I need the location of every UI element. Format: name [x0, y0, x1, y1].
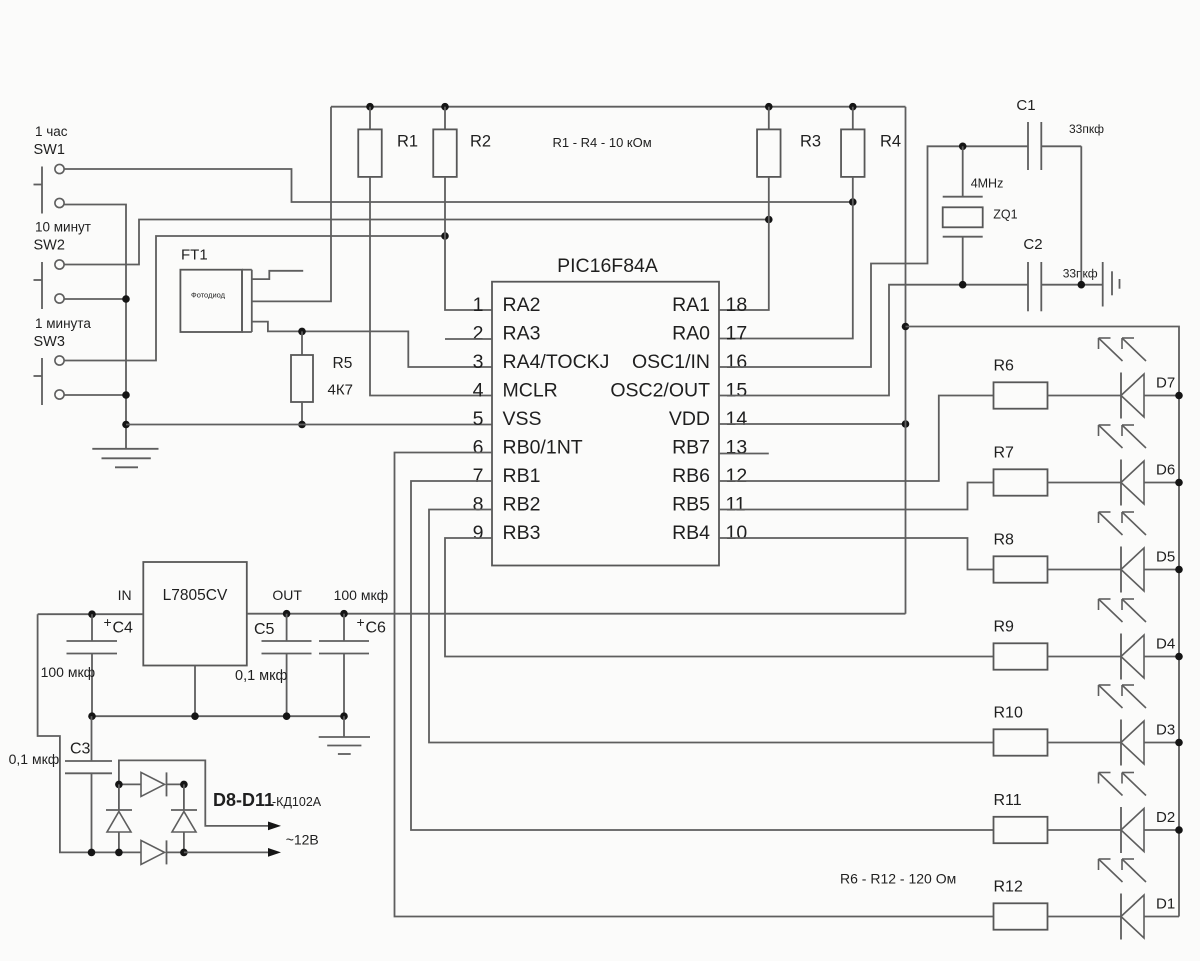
svg-text:SW1: SW1	[34, 142, 65, 158]
svg-text:RB2: RB2	[503, 494, 541, 516]
wire SW3 bottom to bus	[64, 394, 126, 396]
capacitor C1	[1028, 122, 1081, 170]
U1 title label	[557, 255, 658, 277]
svg-text:18: 18	[726, 294, 748, 316]
svg-text:4К7: 4К7	[328, 382, 353, 399]
D5 light arrows	[1099, 512, 1147, 535]
wire SW1 bottom to ground bus	[64, 205, 126, 449]
junction D3 - bus	[1175, 739, 1183, 747]
svg-text:33пкф: 33пкф	[1069, 122, 1104, 136]
label R1 - R4 value	[553, 135, 652, 150]
svg-text:R10: R10	[994, 705, 1023, 722]
junction VDD-+5V	[902, 420, 910, 428]
R7 label	[994, 445, 1015, 462]
svg-text:RB0/1NT: RB0/1NT	[503, 437, 583, 459]
svg-text:RB6: RB6	[672, 465, 710, 487]
svg-text:RA2: RA2	[503, 294, 541, 316]
junction SW3-bus	[122, 391, 130, 399]
D3 label	[1156, 722, 1175, 739]
svg-text:R9: R9	[994, 619, 1015, 636]
op-amp U1 PIC16F84A body	[492, 282, 719, 566]
svg-text:0,1 мкф: 0,1 мкф	[9, 751, 60, 767]
junctions ground rail	[88, 712, 348, 720]
svg-text:+: +	[104, 614, 112, 630]
svg-text:SW2: SW2	[34, 238, 65, 254]
svg-text:C5: C5	[254, 621, 275, 638]
resistor R4	[719, 107, 865, 339]
svg-text:+: +	[357, 614, 365, 630]
R5 label	[328, 355, 353, 399]
svg-text:MCLR: MCLR	[503, 380, 558, 402]
photodiode FT1	[180, 270, 251, 332]
D5 label	[1156, 549, 1175, 566]
svg-text:R11: R11	[994, 792, 1022, 809]
R2 label	[470, 133, 491, 151]
diode D11 (bottom)	[119, 840, 184, 864]
svg-text:33пкф: 33пкф	[1063, 267, 1098, 281]
pin 15 label	[610, 380, 747, 402]
svg-text:5: 5	[473, 408, 484, 430]
pin 14 label	[669, 408, 748, 430]
diode D10 (right)	[171, 784, 197, 852]
D4 label	[1156, 636, 1175, 653]
svg-text:RA1: RA1	[672, 294, 710, 316]
R1 label	[397, 133, 418, 151]
junction D2 - bus	[1175, 826, 1183, 834]
resistor R10	[994, 729, 1122, 755]
junction D7 - bus	[1175, 392, 1183, 400]
pin 11 label	[672, 494, 746, 516]
pin 10 label	[672, 522, 747, 544]
wire pin13 RB7 stub	[719, 453, 769, 455]
switch SW1	[34, 164, 65, 213]
wire SW1 top to R4 bottom / pin17 net	[64, 169, 853, 202]
wire IN rail	[38, 613, 144, 615]
svg-text:SW3: SW3	[34, 334, 65, 350]
wire SW3 top to R2 bottom / pin1 net	[64, 236, 445, 361]
resistor R12	[994, 903, 1122, 929]
junction C1-ZQ1 top	[959, 143, 967, 151]
junction SW2-bus	[122, 295, 130, 303]
switch SW3	[34, 356, 65, 405]
wire OUT +5V rail	[247, 613, 906, 615]
svg-text:15: 15	[726, 380, 748, 402]
junction SW2 wire - R3 lead	[765, 216, 773, 224]
svg-text:2: 2	[473, 323, 484, 345]
svg-text:1: 1	[473, 294, 484, 316]
R3 label	[800, 133, 821, 151]
wire pin10 RB4 to R8	[719, 538, 994, 570]
svg-text:R1: R1	[397, 133, 418, 151]
junction SW3 wire - R2 lead	[441, 232, 449, 240]
ground (switch bus)	[92, 449, 158, 468]
D1 label	[1156, 896, 1175, 913]
resistor R7	[994, 469, 1122, 495]
junction FT1-R5	[298, 328, 306, 336]
L7805CV labels	[118, 587, 303, 604]
svg-text:9: 9	[473, 522, 484, 544]
wire FT1 middle lead to top bus	[252, 107, 331, 302]
pin 9 label	[473, 522, 541, 544]
pin 2 label	[473, 323, 541, 345]
svg-text:D6: D6	[1156, 462, 1175, 479]
capacitor C2	[1028, 262, 1103, 311]
D1 light arrows	[1099, 859, 1147, 882]
svg-text:PIC16F84A: PIC16F84A	[557, 255, 658, 277]
svg-text:R2: R2	[470, 133, 491, 151]
junction top bus - R1	[366, 103, 374, 111]
svg-text:10 минут: 10 минут	[35, 220, 91, 235]
wire pin11 RB5 to R7	[719, 483, 994, 510]
label 100 мкф (C6)	[334, 587, 389, 603]
junction bus-VSS rail	[122, 421, 130, 429]
svg-text:13: 13	[726, 437, 748, 459]
wire SW2 bottom to bus	[64, 298, 126, 300]
LED D7	[1121, 373, 1179, 419]
junction top bus - R3	[765, 103, 773, 111]
junction +5V - LED bus	[902, 323, 910, 331]
svg-text:11: 11	[726, 494, 746, 516]
resistor R8	[994, 556, 1122, 582]
wire pin7 to LED resistor row	[411, 481, 994, 830]
C5 label	[235, 621, 287, 684]
wire pin8 to LED resistor row	[429, 510, 994, 743]
wire +5V top bus	[331, 106, 906, 108]
pin 16 label	[632, 351, 747, 373]
D4 light arrows	[1099, 599, 1147, 622]
junction bridge bottom-left	[115, 849, 123, 857]
svg-text:10: 10	[726, 522, 748, 544]
D7 label	[1156, 375, 1175, 392]
svg-text:R12: R12	[994, 879, 1023, 896]
R12 label	[994, 879, 1023, 896]
capacitor C5	[262, 610, 312, 716]
wire pin6 to LED resistor row	[395, 453, 994, 917]
pin 5 label	[473, 408, 542, 430]
svg-text:D5: D5	[1156, 549, 1175, 566]
capacitor C4	[67, 610, 118, 716]
switch SW1 label	[34, 124, 68, 158]
svg-text:OUT: OUT	[272, 587, 302, 603]
junction SW1 wire - R4 lead	[849, 198, 857, 206]
C4 label	[41, 614, 133, 680]
resistor R5	[291, 331, 313, 424]
svg-text:100 мкф: 100 мкф	[334, 587, 389, 603]
pin 12 label	[672, 465, 747, 487]
label ~12В	[286, 832, 319, 848]
svg-text:R6: R6	[994, 358, 1015, 375]
svg-text:8: 8	[473, 494, 484, 516]
AC arrow 2	[268, 848, 281, 857]
svg-text:C1: C1	[1016, 97, 1035, 114]
LED D5	[1121, 547, 1179, 593]
svg-text:RB7: RB7	[672, 437, 710, 459]
svg-text:R4: R4	[880, 133, 901, 151]
crystal ZQ1	[943, 146, 983, 284]
svg-text:7: 7	[473, 465, 484, 487]
LED D2	[1121, 807, 1179, 853]
svg-text:R8: R8	[994, 532, 1015, 549]
wire +5V vertical	[905, 107, 907, 614]
svg-text:4MHz: 4MHz	[971, 177, 1004, 191]
switch SW3 label	[34, 316, 92, 350]
R8 label	[994, 532, 1015, 549]
svg-text:3: 3	[473, 351, 484, 373]
svg-text:16: 16	[726, 351, 748, 373]
svg-text:RB5: RB5	[672, 494, 710, 516]
pin 7 label	[473, 465, 541, 487]
R4 label	[880, 133, 901, 151]
svg-text:D1: D1	[1156, 896, 1175, 913]
wire bridge top AC path	[119, 760, 268, 826]
svg-text:RA0: RA0	[672, 323, 710, 345]
ground (crystal, right side)	[1103, 262, 1120, 307]
resistor R1	[358, 107, 492, 396]
D2 light arrows	[1099, 773, 1147, 796]
wire ground rail	[90, 715, 344, 717]
photodiode FT1 label	[181, 247, 208, 264]
svg-text:12: 12	[726, 465, 748, 487]
svg-text:14: 14	[726, 408, 748, 430]
svg-text:C3: C3	[70, 741, 91, 758]
pin 8 label	[473, 494, 541, 516]
svg-text:D4: D4	[1156, 636, 1175, 653]
junction C1/C2 right	[1078, 281, 1086, 289]
D7 light arrows	[1099, 338, 1147, 361]
svg-text:100 мкф: 100 мкф	[41, 664, 96, 680]
svg-text:OSC1/IN: OSC1/IN	[632, 351, 710, 373]
switch SW2 label	[34, 220, 91, 254]
svg-text:FT1: FT1	[181, 247, 208, 264]
R11 label	[994, 792, 1022, 809]
pin 3 label	[473, 351, 610, 373]
resistor R3	[719, 107, 781, 310]
R9 label	[994, 619, 1015, 636]
svg-text:R1 - R4 - 10 кОм: R1 - R4 - 10 кОм	[553, 135, 652, 150]
C3 label	[9, 741, 91, 768]
diode D9 (left)	[106, 784, 132, 852]
pin 6 label	[473, 437, 583, 459]
resistor R11	[994, 817, 1122, 843]
wire pin2 RA3 stub	[445, 338, 492, 340]
svg-text:1 час: 1 час	[35, 124, 68, 139]
svg-text:-КД102А: -КД102А	[272, 795, 322, 809]
wire SW2 top to R3 bottom / pin18 net	[64, 220, 769, 265]
junction D5 - bus	[1175, 566, 1183, 574]
FT1 top lead stub	[252, 271, 303, 279]
label R6 - R12 value	[840, 871, 956, 887]
svg-text:C2: C2	[1023, 236, 1042, 253]
pin 17 label	[672, 323, 747, 345]
wire VSS rail (ground) pin5	[126, 424, 492, 426]
pin 1 label	[473, 294, 541, 316]
svg-text:0,1 мкф: 0,1 мкф	[235, 668, 287, 684]
junction D4 - bus	[1175, 653, 1183, 661]
wire pin9 to LED resistor row	[445, 538, 994, 657]
C6 label	[357, 614, 387, 637]
svg-text:RA4/TOCKJ: RA4/TOCKJ	[503, 351, 610, 373]
junction ZQ1 bottom - OSC2 wire	[959, 281, 967, 289]
svg-text:C4: C4	[113, 620, 134, 637]
svg-text:OSC2/OUT: OSC2/OUT	[610, 380, 710, 402]
junction top bus - R4	[849, 103, 857, 111]
wire LED anode bus	[906, 327, 1180, 917]
svg-text:IN: IN	[118, 587, 132, 603]
svg-text:RA3: RA3	[503, 323, 541, 345]
D3 light arrows	[1099, 685, 1147, 708]
svg-text:D2: D2	[1156, 809, 1175, 826]
svg-text:ZQ1: ZQ1	[993, 208, 1017, 222]
junction bridge top-left	[115, 781, 123, 789]
svg-text:Фотодиод: Фотодиод	[191, 291, 226, 300]
resistor R6	[994, 382, 1122, 408]
wire pin15 OSC2 to C2/ZQ1	[719, 285, 1028, 396]
wire IN loop to bridge	[38, 614, 119, 852]
svg-text:4: 4	[473, 380, 484, 402]
svg-text:D3: D3	[1156, 722, 1175, 739]
svg-text:1 минута: 1 минута	[35, 316, 91, 331]
R10 label	[994, 705, 1023, 722]
svg-text:L7805CV: L7805CV	[163, 587, 228, 604]
junction C3 bottom	[88, 849, 96, 857]
junction bridge top-right	[180, 781, 188, 789]
resistor R9	[994, 643, 1122, 669]
LED D4	[1121, 634, 1179, 680]
ground (below C6)	[319, 716, 370, 754]
capacitor C3	[65, 716, 112, 852]
D6 light arrows	[1099, 425, 1147, 448]
junction D6 - bus	[1175, 479, 1183, 487]
wire C1 right to C2 right	[1080, 146, 1082, 284]
pin 13 label	[672, 437, 747, 459]
pin 18 label	[672, 294, 747, 316]
svg-text:C6: C6	[366, 620, 387, 637]
LED D1	[1121, 894, 1179, 940]
svg-text:R3: R3	[800, 133, 821, 151]
svg-text:D8-D11: D8-D11	[213, 790, 274, 810]
svg-text:6: 6	[473, 437, 484, 459]
AC arrow 1	[268, 822, 281, 831]
svg-text:D7: D7	[1156, 375, 1175, 392]
diode D8 (top)	[119, 772, 184, 796]
svg-text:VSS: VSS	[503, 408, 542, 430]
svg-text:RB3: RB3	[503, 522, 541, 544]
wire pin14 VDD to +5V vertical	[719, 423, 906, 425]
wire pin12 RB6 to R6	[719, 396, 994, 482]
label D8-D11	[213, 790, 322, 810]
capacitor C6	[319, 610, 369, 716]
D6 label	[1156, 462, 1175, 479]
LED D3	[1121, 720, 1179, 766]
C1 label	[1016, 97, 1104, 136]
pin 4 label	[473, 380, 558, 402]
R6 label	[994, 358, 1015, 375]
svg-text:~12В: ~12В	[286, 832, 319, 848]
wire FT1 bottom lead to pin3 RA4	[252, 322, 492, 367]
svg-text:RB1: RB1	[503, 465, 541, 487]
svg-text:R7: R7	[994, 445, 1015, 462]
svg-text:RB4: RB4	[672, 522, 710, 544]
svg-text:17: 17	[726, 323, 748, 345]
C2 label	[1023, 236, 1097, 281]
switch SW2	[34, 260, 65, 309]
wire pin16 OSC1 to C1/ZQ1	[719, 146, 1028, 367]
junction R5-VSS rail	[298, 421, 306, 429]
voltage regulator L7805CV	[143, 562, 247, 716]
resistor R2	[433, 107, 492, 310]
D2 label	[1156, 809, 1175, 826]
svg-text:R5: R5	[333, 355, 353, 372]
junction top bus - R2	[441, 103, 449, 111]
wire bridge bottom AC path	[184, 851, 268, 853]
svg-text:VDD: VDD	[669, 408, 710, 430]
ZQ1 labels	[971, 177, 1018, 222]
LED D6	[1121, 460, 1179, 506]
junction bridge bottom-right	[180, 849, 188, 857]
svg-text:R6 - R12 - 120 Ом: R6 - R12 - 120 Ом	[840, 871, 956, 887]
